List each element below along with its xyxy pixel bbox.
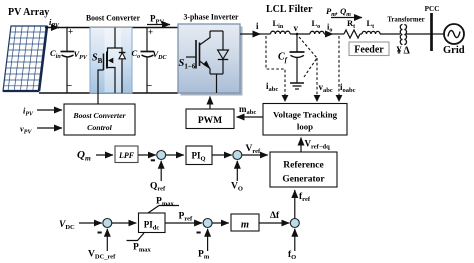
- wire V_ref to Reference Generator: [242, 154, 268, 156]
- svg-text:PCC: PCC: [425, 5, 440, 13]
- node PCC bus bar: [430, 13, 433, 51]
- svg-text:v: v: [294, 23, 299, 33]
- arrow V_DC to sum3: [79, 222, 102, 224]
- wire (dashed) i_abc measurement: [266, 36, 285, 95]
- svg-text:Control: Control: [87, 123, 113, 132]
- wire m to sum5: [259, 222, 289, 224]
- arrow Q_m to LPF: [96, 154, 113, 156]
- Reference Generator box: [270, 152, 337, 187]
- Feeder box: [349, 42, 389, 56]
- LPF box: [115, 146, 138, 163]
- wire PV to left rail with i_PV arrow: [45, 27, 59, 29]
- svg-text:Boost Converter: Boost Converter: [86, 13, 140, 23]
- arrow V_DC_ref: [106, 229, 108, 251]
- node DC-link rail: [146, 28, 148, 52]
- boost converter shaded region: [90, 28, 132, 94]
- arrow V_O: [236, 161, 238, 181]
- Voltage Tracking loop box: [263, 104, 347, 136]
- svg-text:Δf: Δf: [270, 211, 280, 221]
- svg-text:+: +: [68, 27, 73, 37]
- wire PI_Q to sum2: [212, 154, 232, 156]
- arrow Q_ref: [160, 161, 162, 181]
- limit line -P_max: [127, 233, 145, 241]
- svg-text:Transformer: Transformer: [387, 17, 424, 24]
- resistor R_t: [344, 30, 360, 38]
- wire (dashed) i_oabc measurement: [338, 36, 340, 95]
- svg-text:Generator: Generator: [282, 175, 325, 185]
- PI_Q box: [186, 146, 212, 165]
- PI_dc box: [139, 213, 166, 233]
- arrow P_m, Q_m: [331, 17, 362, 19]
- arrow V_ref-dq: [300, 138, 302, 152]
- arrow f_O: [294, 229, 296, 251]
- capacitor Co: [141, 52, 155, 57]
- PV array panel: [3, 26, 47, 91]
- svg-text:¥ Δ: ¥ Δ: [397, 46, 411, 57]
- svg-text:LCL Filter: LCL Filter: [266, 4, 313, 15]
- label minus (sum4): [197, 232, 201, 234]
- wire with arrow i_o: [324, 33, 333, 35]
- svg-text:−: −: [147, 81, 153, 92]
- op-amp: 3-phase inverter block: [178, 24, 240, 93]
- wire LPF to sum1: [138, 154, 156, 156]
- node sum4: [203, 219, 212, 228]
- wire sum4 to m: [212, 222, 229, 224]
- transistor S_B (MOSFET): [98, 28, 115, 105]
- node sum5: [290, 219, 299, 228]
- inductor L_o: [310, 31, 324, 34]
- arrow P_m: [207, 229, 209, 251]
- svg-text:Voltage Tracking: Voltage Tracking: [273, 110, 338, 120]
- diode (boost): [115, 48, 125, 93]
- transistor S_1-6 (IGBT): [186, 31, 223, 93]
- wire PCC to grid: [432, 33, 444, 35]
- capacitor Cin: [61, 52, 75, 57]
- wire to transformer: [380, 33, 400, 35]
- limit line P_max: [148, 206, 179, 214]
- wire (dashed) v_abc measurement: [299, 37, 317, 95]
- label minus (sum3): [98, 232, 102, 234]
- svg-text:3-phase Inverter: 3-phase Inverter: [184, 12, 239, 22]
- inductor L_in: [271, 31, 291, 34]
- node sum2: [233, 151, 242, 160]
- node left rail: [66, 28, 68, 52]
- PWM box: [186, 109, 234, 129]
- m box: [231, 214, 259, 231]
- arrow m_abc into PWM: [237, 116, 264, 118]
- svg-text:PWM: PWM: [198, 116, 222, 126]
- inverter box shadow: [181, 27, 243, 96]
- svg-text:PV Array: PV Array: [8, 7, 49, 18]
- transformer: [400, 25, 406, 45]
- wire node v: [290, 33, 310, 35]
- node sum3: [103, 219, 112, 228]
- svg-text:−: −: [67, 81, 73, 92]
- svg-text:loop: loop: [297, 122, 313, 132]
- wire top DC rail: [67, 27, 178, 29]
- svg-text:Feeder: Feeder: [354, 45, 384, 56]
- wire sum3 to PI_dc: [112, 222, 137, 224]
- label minus (sum1): [151, 159, 155, 161]
- arrow PWM to inverter: [209, 97, 211, 109]
- arrow f_ref to Reference Generator: [294, 190, 296, 219]
- wire PI_dc to sum4: [165, 222, 202, 224]
- diode (inverter freewheel): [218, 31, 229, 74]
- wire sum1 to PI_Q: [165, 154, 183, 156]
- arrow v_PV into control: [37, 127, 62, 129]
- svg-text:Boost Converter: Boost Converter: [72, 111, 126, 120]
- node sum1: [157, 151, 166, 160]
- svg-text:Grid: Grid: [443, 45, 465, 56]
- svg-text:m: m: [241, 220, 249, 231]
- arrow i_PV into control: [37, 109, 62, 111]
- ground: [290, 83, 304, 89]
- wire bottom DC rail: [39, 92, 178, 94]
- source Grid (AC): [444, 24, 464, 44]
- wire transformer to PCC: [406, 33, 431, 35]
- inductor L_t: [360, 33, 362, 35]
- svg-text:+: +: [148, 27, 153, 37]
- Boost Converter Control box: [64, 104, 135, 135]
- svg-text:LPF: LPF: [118, 151, 135, 160]
- svg-text:Reference: Reference: [283, 161, 323, 171]
- capacitor C_f: [290, 34, 305, 83]
- arrow P_PV: [147, 24, 170, 26]
- wire inverter output with arrow i: [240, 33, 261, 35]
